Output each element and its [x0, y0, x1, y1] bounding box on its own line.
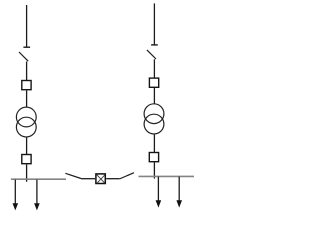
transformer T2 primary winding — [144, 104, 164, 124]
wire breaker QF3 to transformer T2 — [153, 88, 155, 104]
load feeder F2 line — [36, 180, 38, 205]
busbar section II — [139, 175, 195, 177]
disconnector QS1 blade — [19, 52, 28, 61]
load feeder F3 arrowhead — [156, 200, 162, 207]
incoming feeder line right — [153, 3, 155, 45]
load feeder F4 line — [178, 177, 180, 202]
bus tie disconnector QS3 blade (left) — [65, 173, 81, 178]
circuit breaker QF4 (square) — [149, 153, 158, 162]
wire transformer T2 to breaker QF4 — [153, 135, 155, 152]
circuit breaker QF2 (square) — [22, 155, 31, 164]
wire breaker QF2 to busbar I — [26, 165, 28, 182]
circuit breaker QF1 (square) — [22, 81, 31, 90]
load feeder F3 line — [157, 177, 159, 202]
wire tie breaker to QS4 — [106, 178, 119, 180]
transformer T1 primary winding — [16, 107, 36, 127]
load feeder F4 arrowhead — [176, 200, 182, 207]
wire QS3 to tie breaker — [81, 178, 95, 180]
bus tie breaker QF5 (square with X) — [96, 174, 105, 184]
disconnector QS1 fixed contact tick — [23, 46, 30, 48]
wire QS2 to breaker QF3 — [153, 59, 155, 77]
disconnector QS2 blade — [147, 50, 156, 59]
wire QS1 to breaker — [26, 62, 28, 81]
transformer T1 secondary winding — [16, 117, 36, 137]
load feeder F1 line — [14, 180, 16, 205]
load feeder F2 arrowhead — [34, 203, 40, 210]
incoming feeder line left — [26, 5, 28, 47]
transformer T2 secondary winding — [144, 114, 164, 134]
wire breaker to transformer T1 — [26, 91, 28, 108]
wire transformer to breaker QF2 — [26, 138, 28, 154]
bus tie disconnector QS4 blade (right) — [119, 173, 134, 179]
wire breaker QF4 to busbar II — [153, 162, 155, 178]
busbar section I — [11, 178, 66, 180]
disconnector QS2 fixed contact tick — [151, 44, 158, 46]
load feeder F1 arrowhead — [13, 203, 19, 210]
circuit breaker QF3 (square) — [149, 78, 158, 87]
